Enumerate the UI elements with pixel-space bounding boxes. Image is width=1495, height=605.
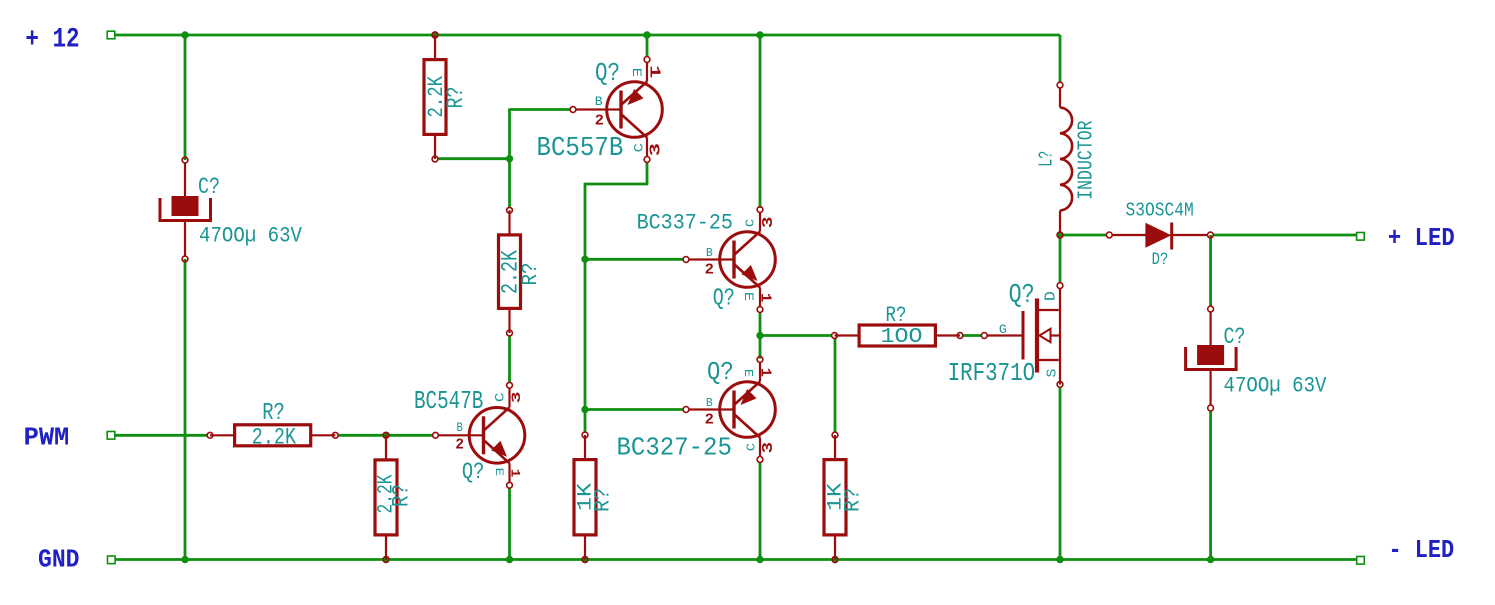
junction GND/C1: [181, 556, 188, 563]
junction GND/C2: [1207, 556, 1214, 563]
resistor R100 100: [832, 325, 963, 346]
wire vertical to BC337/BC327 bases: [584, 183, 587, 433]
svg-text:C: C: [745, 443, 759, 451]
svg-text:BC327-25: BC327-25: [617, 434, 732, 463]
wire diode node down to C2 top: [1209, 235, 1212, 307]
svg-text:B: B: [457, 421, 464, 435]
junction +12/C1: [181, 31, 188, 38]
svg-text:S3OSC4M: S3OSC4M: [1126, 200, 1194, 222]
wire R435 bottom to node A: [437, 157, 510, 160]
svg-text:E: E: [741, 292, 756, 301]
svg-text:2: 2: [705, 411, 714, 428]
junction +12/R435: [431, 31, 438, 38]
svg-text:C: C: [743, 219, 757, 227]
svg-text:3: 3: [760, 442, 777, 454]
resistor R435 2.2K: [424, 32, 446, 162]
svg-text:E: E: [629, 68, 643, 77]
svg-text:Q?: Q?: [1009, 280, 1035, 310]
wire inductor node to diode anode: [1060, 234, 1107, 237]
wire node A down to R510 top: [508, 159, 511, 208]
junction PWM/R386: [382, 432, 389, 439]
svg-text:BC547B: BC547B: [414, 387, 483, 416]
svg-text:1: 1: [756, 293, 773, 302]
svg-text:C: C: [631, 143, 646, 153]
wire push-pull node to R100: [760, 334, 832, 337]
capacitor C1 4700u 63V: [160, 157, 211, 262]
net label - LED: [1357, 535, 1455, 565]
wire C2 bottom to GND rail: [1209, 412, 1212, 560]
junction push-pull output: [756, 332, 763, 339]
junction GND/mosfet source: [1056, 556, 1063, 563]
inductor L1: [1057, 82, 1072, 232]
svg-text:Q?: Q?: [713, 286, 735, 313]
svg-text:S: S: [1045, 369, 1061, 378]
svg-text:2.2K: 2.2K: [252, 424, 297, 451]
junction node A: [506, 155, 513, 162]
diode D1 S30SC4M: [1106, 223, 1213, 250]
junction BC327 base: [581, 406, 588, 413]
svg-text:R?: R?: [840, 488, 866, 512]
net label + LED: [1357, 224, 1455, 253]
svg-text:47OOµ 63V: 47OOµ 63V: [199, 224, 303, 249]
junction inductor/diode/drain node: [1056, 231, 1063, 238]
svg-text:- LED: - LED: [1389, 535, 1455, 565]
svg-text:C: C: [494, 393, 508, 403]
svg-text:B: B: [706, 246, 713, 260]
wire BC557 collector down: [646, 163, 649, 185]
junction GND/R835: [831, 556, 838, 563]
svg-text:C?: C?: [198, 174, 220, 201]
svg-text:BC557B: BC557B: [537, 134, 624, 164]
svg-text:1OO: 1OO: [881, 326, 923, 349]
svg-text:E: E: [741, 369, 755, 377]
svg-text:R?: R?: [389, 484, 415, 507]
wire +12 rail to BC337 collector: [759, 35, 762, 208]
wire BC557 collector left: [585, 183, 648, 186]
svg-text:R?: R?: [443, 87, 469, 109]
svg-text:3: 3: [509, 391, 524, 403]
transistor Q1 BC557B: [570, 57, 662, 163]
junction BC337 base: [581, 256, 588, 263]
wire C1 bottom to GND rail: [184, 259, 187, 560]
wire to BC327 base: [585, 408, 683, 411]
resistor R510 2.2K: [499, 207, 521, 335]
wire R100 to gate pin: [963, 334, 983, 337]
wire BC337 emitter to BC327 emitter: [759, 313, 762, 359]
svg-text:1: 1: [756, 368, 773, 377]
svg-text:L?: L?: [1036, 151, 1058, 167]
svg-text:+ 12: + 12: [25, 24, 79, 55]
junction GND/R386: [382, 556, 389, 563]
resistor R835 1K: [824, 432, 846, 559]
svg-text:R?: R?: [886, 302, 907, 328]
wire R1 right pin to BC547 base: [338, 434, 434, 437]
transistor Q2 BC337-25: [683, 207, 775, 313]
svg-text:2: 2: [455, 436, 464, 453]
transistor Q4 BC547B: [433, 382, 525, 488]
wire diode cathode to + LED: [1214, 234, 1357, 237]
capacitor C2 4700u 63V: [1186, 306, 1237, 411]
svg-text:2: 2: [705, 261, 714, 278]
junction GND/BC547 emitter: [506, 556, 513, 563]
svg-text:R?: R?: [262, 400, 285, 427]
junction +12/BC557 emitter: [643, 31, 650, 38]
wire inductor top to +12 corner: [1059, 35, 1062, 83]
wire to BC337 base: [585, 258, 683, 261]
junction GND/R585: [581, 556, 588, 563]
wire BC547 emitter to GND: [508, 488, 511, 560]
svg-text:PWM: PWM: [24, 422, 70, 452]
svg-text:Q?: Q?: [462, 459, 485, 485]
wire node B down to R835 top: [834, 338, 837, 432]
svg-text:R?: R?: [517, 263, 543, 286]
wire BC327 collector to GND: [759, 463, 762, 560]
svg-text:47OOµ 63V: 47OOµ 63V: [1224, 374, 1328, 399]
resistor R310 2.2K (PWM): [207, 425, 338, 446]
svg-text:1: 1: [645, 65, 661, 79]
junction +12/BC337 collector: [756, 31, 763, 38]
svg-text:1: 1: [507, 469, 522, 478]
junction GND/BC327 collector: [756, 556, 763, 563]
net label GND: [38, 546, 115, 575]
svg-text:D: D: [1043, 291, 1060, 301]
svg-text:3: 3: [760, 217, 777, 229]
wire GND rail: [115, 558, 1357, 561]
svg-text:BC337-25: BC337-25: [637, 211, 733, 236]
resistor R386 2.2K: [375, 435, 397, 559]
net label + 12: [25, 24, 114, 55]
wire node A up to BC557 base corner: [508, 109, 511, 159]
svg-text:3: 3: [648, 143, 665, 156]
svg-text:G: G: [999, 323, 1007, 337]
wire corner to BC557 base: [510, 108, 571, 111]
resistor R585 1K: [574, 432, 596, 559]
svg-text:C?: C?: [1224, 324, 1246, 351]
mosfet Q5 IRF3710: [981, 283, 1063, 388]
svg-text:GND: GND: [38, 546, 80, 575]
svg-text:+ LED: + LED: [1388, 224, 1455, 253]
svg-text:D?: D?: [1152, 250, 1169, 270]
wire inductor bottom to mosfet drain: [1059, 238, 1062, 284]
wire PWM to R1 left pin: [115, 434, 208, 437]
svg-text:IRF371O: IRF371O: [948, 358, 1036, 388]
svg-text:E: E: [492, 468, 504, 477]
wire R510 bottom to BC547 collector: [508, 335, 511, 382]
svg-text:2: 2: [595, 113, 604, 130]
wire BC557 emitter to +12 rail: [646, 35, 649, 57]
svg-text:R?: R?: [590, 488, 616, 512]
wire +12 rail: [115, 34, 1060, 37]
net label PWM: [24, 422, 115, 452]
svg-text:B: B: [706, 396, 713, 410]
wire mosfet source to GND: [1059, 387, 1062, 560]
svg-text:Q?: Q?: [595, 58, 620, 88]
svg-text:B: B: [595, 95, 603, 109]
transistor Q3 BC327-25: [683, 357, 775, 463]
svg-text:INDUCTOR: INDUCTOR: [1075, 120, 1098, 200]
wire +12 to C1 top: [184, 35, 187, 160]
svg-text:Q?: Q?: [707, 357, 734, 387]
